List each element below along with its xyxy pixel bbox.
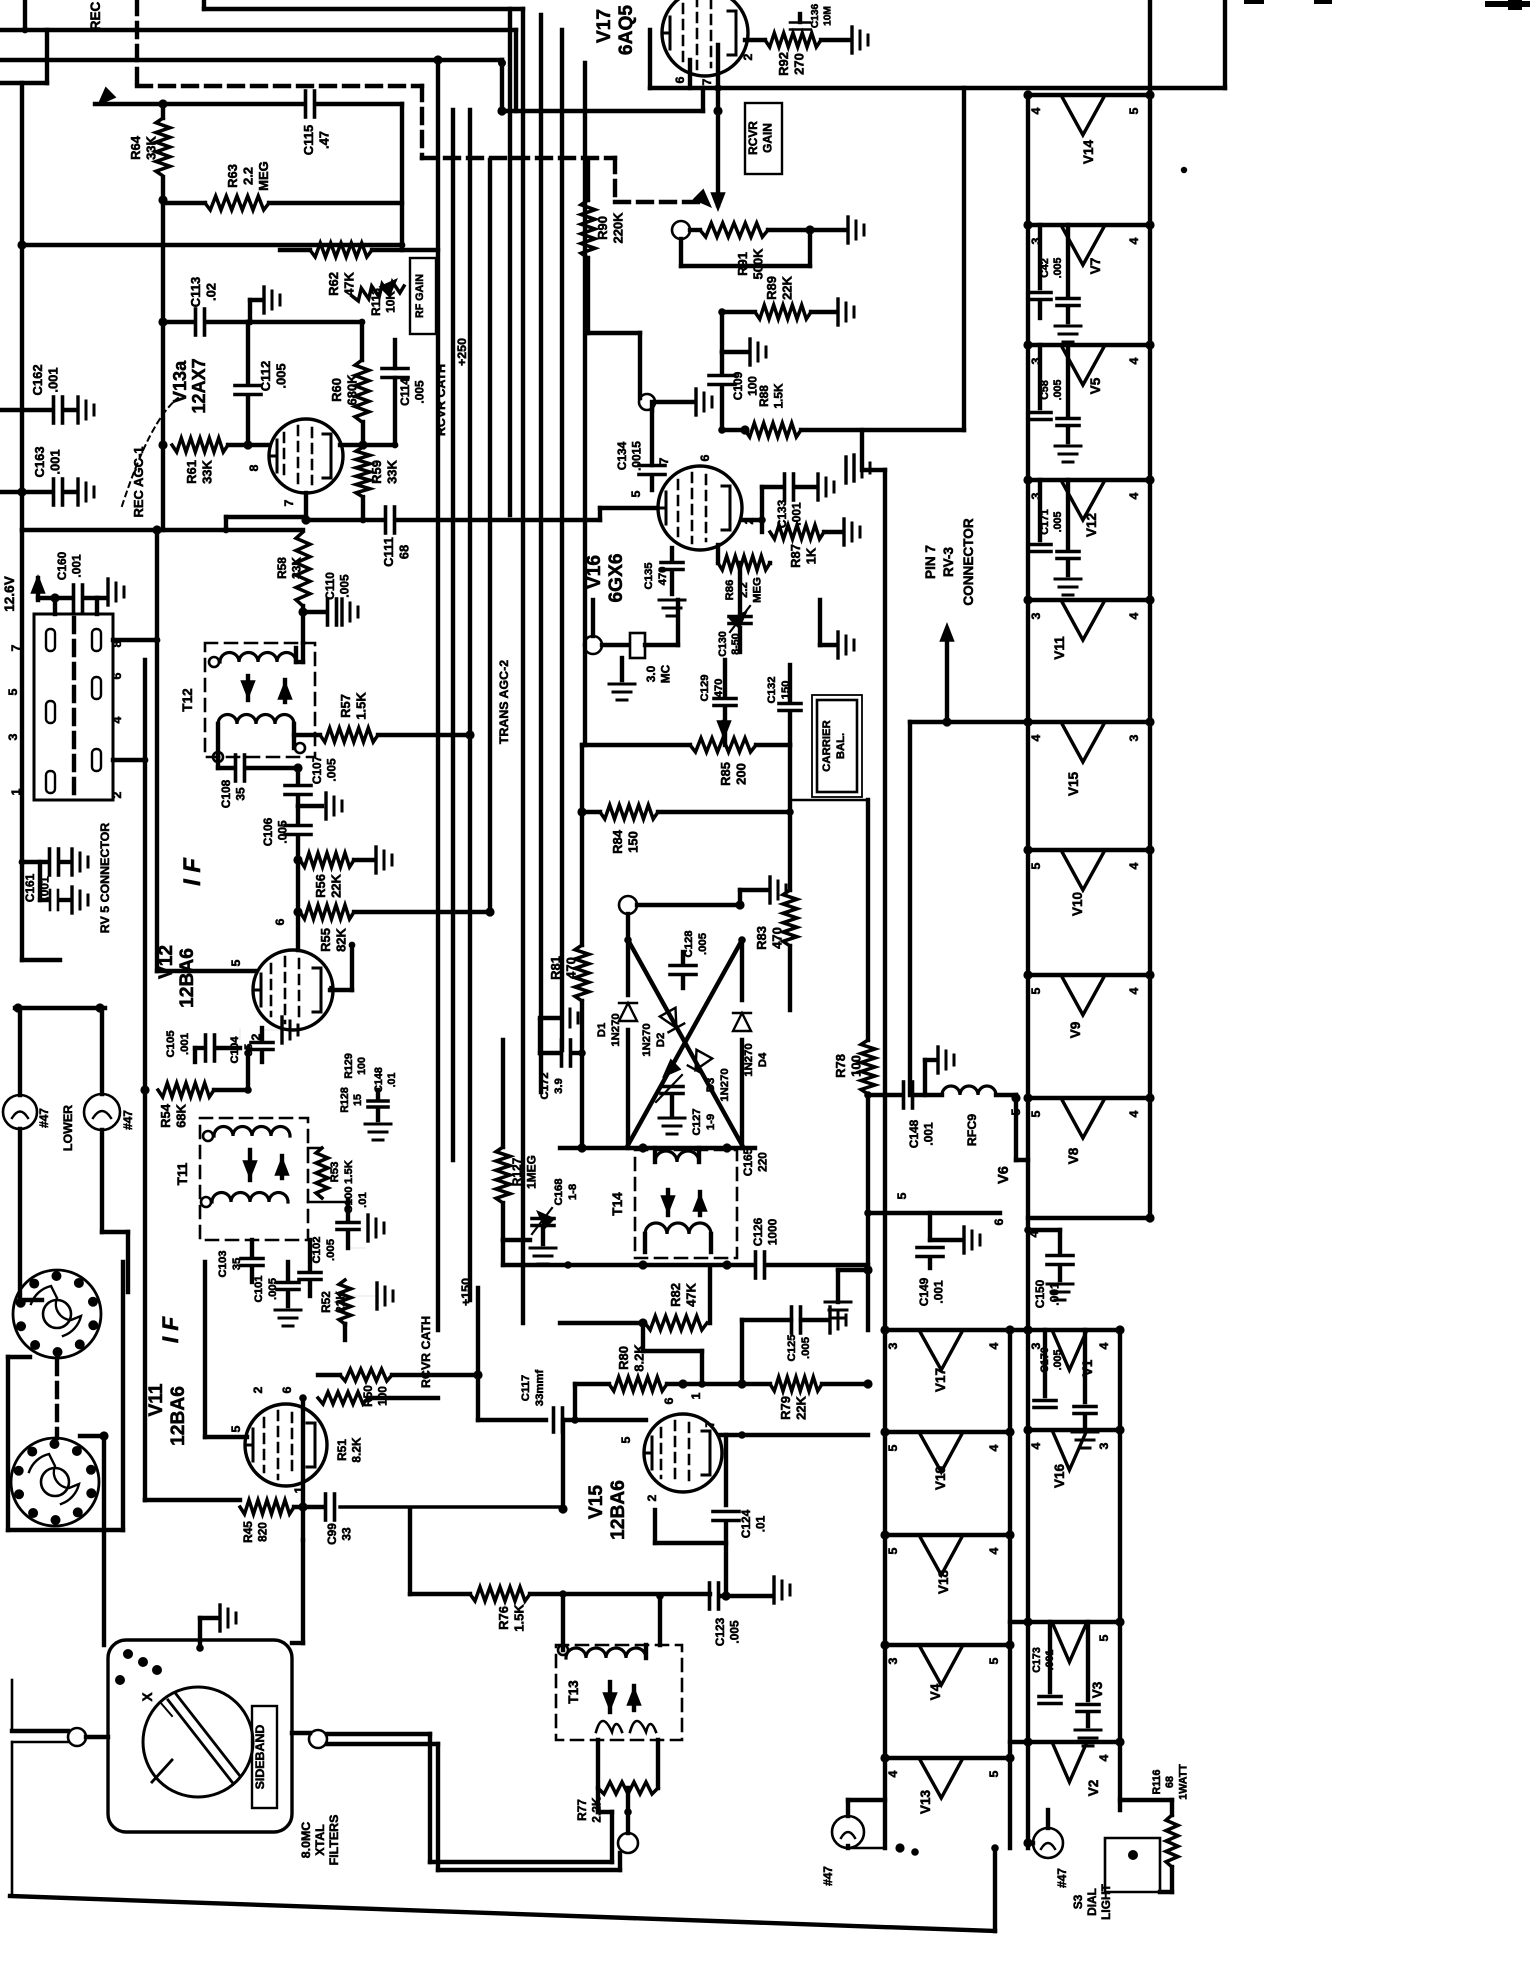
svg-text:V3: V3 bbox=[1090, 1681, 1105, 1698]
tube V18 heater bbox=[880, 1530, 1014, 1594]
node RCVR GAIN bbox=[745, 103, 782, 174]
wire bbox=[790, 799, 868, 802]
svg-text:V15: V15 bbox=[1066, 771, 1081, 796]
tube V11 heater bbox=[1023, 595, 1154, 659]
svg-text:R61: R61 bbox=[184, 460, 199, 484]
svg-text:C135: C135 bbox=[643, 562, 655, 589]
node J2 bbox=[309, 1730, 327, 1748]
pin 5 bbox=[229, 959, 243, 966]
wire bbox=[598, 1788, 632, 1816]
node PIN 7 RV-3 bbox=[923, 518, 976, 606]
svg-text:TRANS AGC-2: TRANS AGC-2 bbox=[497, 660, 511, 744]
svg-text:4: 4 bbox=[886, 1770, 900, 1777]
resistor R55 bbox=[293, 905, 490, 952]
pin 6 bbox=[662, 1397, 676, 1404]
node SIDEBAND bbox=[252, 1706, 277, 1808]
resistor R61 bbox=[172, 438, 228, 484]
node V17 label bbox=[594, 5, 637, 55]
wire bbox=[866, 1270, 870, 1330]
pin 2 bbox=[742, 517, 756, 524]
svg-text:4: 4 bbox=[1097, 1342, 1111, 1349]
svg-text:6: 6 bbox=[992, 1218, 1006, 1225]
wire bbox=[720, 312, 724, 352]
svg-text:6: 6 bbox=[280, 1386, 294, 1393]
resistor R56 bbox=[293, 847, 392, 898]
svg-text:2: 2 bbox=[110, 791, 124, 798]
wire bbox=[296, 858, 300, 950]
wire specks bbox=[1181, 0, 1530, 173]
svg-text:REC AGC-1: REC AGC-1 bbox=[131, 446, 146, 517]
svg-text:R89: R89 bbox=[764, 276, 779, 300]
svg-text:C136: C136 bbox=[810, 3, 821, 28]
svg-text:C103: C103 bbox=[217, 1250, 229, 1277]
node bbox=[639, 389, 712, 415]
svg-text:C99: C99 bbox=[325, 1523, 339, 1545]
svg-text:R78: R78 bbox=[833, 1054, 848, 1078]
wire bbox=[658, 1596, 662, 1645]
capacitor C124 bbox=[713, 1435, 767, 1601]
svg-text:470: 470 bbox=[657, 567, 669, 586]
node TRANS AGC-2 bbox=[497, 660, 511, 744]
svg-text:.001: .001 bbox=[46, 367, 61, 392]
resistor R62 bbox=[280, 243, 438, 296]
svg-text:.005: .005 bbox=[275, 820, 289, 844]
svg-text:T11: T11 bbox=[175, 1162, 190, 1185]
svg-text:R63: R63 bbox=[225, 164, 240, 188]
svg-text:1K: 1K bbox=[804, 547, 819, 564]
wire box bbox=[650, 0, 1225, 88]
node RCVR CATH bbox=[419, 1316, 433, 1388]
svg-text:150: 150 bbox=[780, 681, 792, 700]
svg-text:R79: R79 bbox=[778, 1396, 793, 1420]
svg-text:3: 3 bbox=[1097, 1442, 1111, 1449]
svg-text:C104: C104 bbox=[229, 1036, 241, 1064]
pin 3 bbox=[6, 733, 20, 740]
wire bbox=[301, 606, 305, 643]
wire bbox=[868, 1095, 1028, 1225]
node J1 bbox=[12, 1728, 108, 1746]
svg-text:#47: #47 bbox=[121, 1110, 135, 1130]
ground bbox=[820, 600, 854, 658]
node REC AGC bbox=[88, 1, 103, 30]
svg-text:5: 5 bbox=[895, 1192, 909, 1199]
svg-text:6: 6 bbox=[673, 76, 687, 83]
svg-text:SIDEBAND: SIDEBAND bbox=[253, 1725, 267, 1790]
node X bbox=[140, 1692, 172, 1716]
wire bbox=[718, 545, 770, 652]
wire bbox=[11, 1680, 14, 1896]
svg-text:500K: 500K bbox=[751, 248, 766, 280]
node XTAL FILTERS bbox=[299, 1815, 341, 1866]
resistor R78 bbox=[833, 800, 875, 1270]
capacitor C148b bbox=[365, 1067, 398, 1140]
svg-text:D4: D4 bbox=[757, 1052, 769, 1067]
svg-text:5: 5 bbox=[886, 1547, 900, 1554]
pin 5 bbox=[1009, 1108, 1023, 1115]
pin 7 bbox=[9, 644, 23, 651]
svg-text:12.6V: 12.6V bbox=[2, 576, 17, 612]
svg-text:5: 5 bbox=[1097, 1634, 1111, 1641]
svg-text:R50: R50 bbox=[361, 1385, 375, 1407]
transformer T12 bbox=[180, 643, 315, 757]
lamp I2 bbox=[84, 1008, 135, 1130]
svg-text:.01: .01 bbox=[386, 1073, 398, 1088]
capacitor C133 bbox=[758, 474, 834, 528]
svg-text:R82: R82 bbox=[668, 1283, 683, 1307]
svg-text:33K: 33K bbox=[200, 459, 215, 483]
capacitor C128 bbox=[670, 930, 709, 988]
resistor R45 bbox=[240, 1500, 324, 1543]
svg-text:MC: MC bbox=[658, 664, 672, 683]
node V11 label bbox=[146, 1383, 189, 1446]
wire bbox=[158, 200, 167, 530]
wire bbox=[1027, 1213, 1155, 1237]
node LOWER bbox=[61, 1105, 75, 1151]
ground bbox=[825, 1270, 868, 1318]
svg-text:10K: 10K bbox=[383, 291, 397, 313]
capacitor C108 bbox=[218, 755, 303, 808]
svg-text:V8: V8 bbox=[1066, 1147, 1081, 1164]
svg-text:V16: V16 bbox=[584, 555, 605, 589]
capacitor C105 bbox=[165, 1030, 240, 1062]
wire rail bbox=[1008, 1330, 1012, 1848]
svg-text:RCVR CATH: RCVR CATH bbox=[419, 1316, 433, 1388]
resistor R54 bbox=[158, 1083, 248, 1128]
pin 2 bbox=[741, 53, 755, 60]
wire bbox=[681, 230, 810, 266]
resistor R60 bbox=[248, 319, 369, 422]
svg-text:C114: C114 bbox=[398, 378, 412, 406]
tube V3 heater bbox=[1023, 1617, 1124, 1698]
pin 7 bbox=[703, 1420, 717, 1427]
svg-text:.01: .01 bbox=[357, 1192, 369, 1208]
svg-text:1.5K: 1.5K bbox=[771, 383, 785, 409]
pin 8 bbox=[110, 640, 124, 647]
tube V17 heater bbox=[880, 1325, 1014, 1392]
svg-text:V14: V14 bbox=[1081, 139, 1096, 164]
capacitor C148 bbox=[868, 1082, 942, 1148]
svg-text:820: 820 bbox=[255, 1522, 269, 1542]
svg-text:R88: R88 bbox=[757, 385, 771, 407]
capacitor C125 bbox=[742, 1307, 846, 1384]
svg-text:C134: C134 bbox=[615, 441, 629, 470]
svg-text:7: 7 bbox=[657, 457, 671, 464]
wire bbox=[848, 1843, 919, 1855]
potentiometer R91 bbox=[672, 217, 864, 280]
svg-text:C42: C42 bbox=[1039, 258, 1051, 278]
svg-text:R127: R127 bbox=[510, 1157, 524, 1186]
wire bbox=[213, 743, 305, 768]
svg-text:1N270: 1N270 bbox=[641, 1023, 653, 1056]
wire bbox=[514, 30, 518, 111]
wire bbox=[1010, 1325, 1033, 1334]
T11 secondary bbox=[201, 1193, 288, 1208]
node V12 label bbox=[156, 945, 198, 1008]
svg-text:1N270: 1N270 bbox=[719, 1068, 731, 1101]
diode D3 bbox=[628, 940, 742, 1145]
svg-text:C109: C109 bbox=[731, 371, 745, 400]
transformer T14 bbox=[610, 1150, 737, 1258]
capacitor C103 bbox=[217, 1240, 263, 1282]
svg-text:C123: C123 bbox=[713, 1617, 727, 1646]
svg-text:2.2: 2.2 bbox=[241, 167, 256, 185]
svg-text:100: 100 bbox=[849, 1055, 864, 1077]
svg-text:V11: V11 bbox=[146, 1383, 167, 1416]
wire bbox=[22, 0, 29, 33]
svg-text:82K: 82K bbox=[334, 927, 349, 951]
svg-text:1-9: 1-9 bbox=[705, 1114, 717, 1130]
svg-text:2: 2 bbox=[741, 53, 755, 60]
svg-text:R59: R59 bbox=[369, 460, 384, 484]
wire bbox=[939, 622, 954, 727]
capacitor C123 bbox=[710, 1577, 791, 1646]
wire AGC dashed run bbox=[137, 0, 712, 208]
wire bbox=[80, 1431, 109, 1440]
capacitor C109 bbox=[709, 352, 759, 430]
resistor R57 bbox=[294, 692, 470, 742]
svg-text:V9: V9 bbox=[1068, 1021, 1083, 1038]
wire bus bbox=[451, 110, 455, 1160]
svg-text:4: 4 bbox=[1029, 734, 1043, 741]
svg-text:C132: C132 bbox=[766, 676, 778, 703]
wire bbox=[157, 530, 256, 971]
tube V4 heater bbox=[880, 1640, 1014, 1700]
wire bbox=[0, 30, 47, 83]
node V6 bbox=[996, 1166, 1012, 1184]
svg-text:XTAL: XTAL bbox=[313, 1824, 327, 1856]
pin 2 bbox=[110, 791, 124, 798]
capacitor C129 bbox=[699, 660, 736, 745]
svg-text:#47: #47 bbox=[821, 1866, 835, 1886]
svg-text:V12: V12 bbox=[156, 945, 177, 979]
wire bus bbox=[508, 9, 512, 515]
svg-text:5: 5 bbox=[6, 688, 20, 695]
capacitor C132 bbox=[766, 665, 801, 745]
T14 primary bbox=[655, 1148, 699, 1162]
capacitor C135 bbox=[643, 548, 685, 616]
svg-text:.01: .01 bbox=[753, 1515, 767, 1532]
wire bbox=[571, 1384, 579, 1424]
node RV 5 CONNECTOR bbox=[98, 823, 112, 933]
svg-text:R77: R77 bbox=[575, 1799, 589, 1821]
svg-text:C112: C112 bbox=[258, 361, 273, 391]
resistor R127 bbox=[496, 1040, 538, 1203]
wire bbox=[228, 443, 269, 447]
node J3 bbox=[618, 1833, 638, 1853]
tube V8 heater bbox=[1023, 1093, 1154, 1164]
svg-text:68: 68 bbox=[1164, 1776, 1176, 1788]
switch knob bbox=[143, 1687, 253, 1797]
pin 5 bbox=[6, 688, 20, 695]
svg-text:12AX7: 12AX7 bbox=[189, 358, 209, 413]
svg-text:5: 5 bbox=[229, 959, 243, 966]
svg-text:V5: V5 bbox=[1088, 377, 1103, 394]
svg-text:R76: R76 bbox=[496, 1606, 511, 1630]
svg-text:.005: .005 bbox=[1052, 380, 1064, 401]
svg-text:R57: R57 bbox=[338, 694, 353, 718]
svg-text:R52: R52 bbox=[319, 1291, 333, 1313]
wire bbox=[1023, 1838, 1033, 1847]
resistor R76 bbox=[410, 1509, 710, 1632]
svg-text:V2: V2 bbox=[1086, 1779, 1101, 1796]
node IF label bbox=[180, 858, 206, 886]
svg-text:LOWER: LOWER bbox=[61, 1105, 75, 1151]
svg-text:C126: C126 bbox=[751, 1217, 765, 1246]
wire bbox=[22, 525, 303, 534]
wire bbox=[655, 1510, 726, 1543]
lamp DS2 bbox=[1033, 1810, 1069, 1888]
svg-text:1.5K: 1.5K bbox=[354, 692, 369, 720]
svg-text:6: 6 bbox=[273, 918, 287, 925]
svg-text:I F: I F bbox=[180, 858, 206, 886]
svg-text:CONNECTOR: CONNECTOR bbox=[961, 518, 976, 606]
T14 arrows bbox=[660, 1190, 707, 1215]
svg-text:R113: R113 bbox=[369, 288, 383, 316]
node ring top bbox=[619, 877, 786, 914]
pin 7 bbox=[282, 499, 296, 506]
capacitor C106 bbox=[261, 806, 311, 858]
svg-text:C172: C172 bbox=[539, 1072, 551, 1099]
T13 primary bbox=[558, 1645, 646, 1658]
svg-text:V13a: V13a bbox=[170, 360, 190, 403]
T14 secondary bbox=[645, 1223, 711, 1252]
svg-text:2: 2 bbox=[645, 1494, 659, 1501]
resistor R82 bbox=[638, 1268, 710, 1330]
svg-text:1.5K: 1.5K bbox=[343, 1159, 355, 1184]
pin 7 bbox=[327, 985, 341, 992]
svg-text:12BA6: 12BA6 bbox=[168, 1386, 189, 1446]
capacitor C149 bbox=[917, 1213, 945, 1306]
resistor R53 bbox=[316, 1148, 355, 1198]
wire rail bbox=[1118, 1330, 1122, 1810]
node V15 label bbox=[586, 1480, 629, 1540]
svg-text:.005: .005 bbox=[324, 758, 338, 782]
wire heavy bbox=[340, 1505, 563, 1508]
svg-text:C149: C149 bbox=[917, 1277, 931, 1306]
svg-text:5: 5 bbox=[1029, 862, 1043, 869]
tube V12 bbox=[253, 950, 333, 1030]
svg-text:22K: 22K bbox=[333, 1291, 347, 1313]
T11 primary bbox=[203, 1127, 290, 1142]
svg-text:.001: .001 bbox=[69, 554, 83, 578]
svg-text:5: 5 bbox=[1029, 1110, 1043, 1117]
resistor R52 bbox=[319, 1280, 393, 1340]
tube V13 heater bbox=[880, 1753, 1014, 1814]
wire bottom bus bbox=[10, 1844, 999, 1931]
wire bbox=[205, 1262, 247, 1437]
svg-text:.005: .005 bbox=[412, 380, 426, 404]
wire bus bbox=[436, 60, 440, 1330]
resistor R80 bbox=[575, 1344, 706, 1391]
wire rail bbox=[1026, 93, 1030, 1330]
wire ring bottom bbox=[560, 1143, 755, 1152]
wire bbox=[360, 497, 367, 523]
pin 2 bbox=[645, 1494, 659, 1501]
resistor R64 bbox=[128, 118, 170, 176]
svg-text:33K: 33K bbox=[289, 557, 303, 579]
wire bbox=[140, 660, 149, 1500]
svg-text:RV-3: RV-3 bbox=[941, 547, 956, 577]
svg-text:3: 3 bbox=[1127, 734, 1141, 741]
T13 secondary bbox=[596, 1721, 656, 1732]
svg-text:C105: C105 bbox=[165, 1030, 177, 1057]
resistor R83 bbox=[754, 890, 797, 1010]
svg-text:68: 68 bbox=[397, 545, 412, 559]
resistor R50 bbox=[318, 1369, 478, 1407]
svg-text:1WATT: 1WATT bbox=[1178, 1764, 1190, 1800]
svg-text:R83: R83 bbox=[754, 926, 769, 950]
switch contacts bbox=[115, 1649, 162, 1685]
resistor R116 bbox=[1120, 1764, 1190, 1892]
wire bbox=[292, 1733, 612, 1862]
wire bbox=[327, 1744, 620, 1870]
wire rail bbox=[883, 1330, 887, 1848]
tube V5 heater bbox=[1023, 340, 1154, 394]
svg-text:RCVR: RCVR bbox=[746, 121, 760, 155]
wire plate V15 bbox=[720, 1431, 868, 1439]
ground bbox=[196, 1605, 236, 1652]
capacitor C136 bbox=[790, 3, 834, 29]
svg-text:4: 4 bbox=[1097, 1754, 1111, 1761]
svg-text:1000: 1000 bbox=[765, 1218, 779, 1245]
svg-text:V19: V19 bbox=[933, 1465, 948, 1490]
svg-text:22K: 22K bbox=[780, 275, 795, 299]
svg-text:8.0MC: 8.0MC bbox=[299, 1822, 313, 1859]
capacitor C112 bbox=[235, 322, 289, 450]
lamp DS1 bbox=[821, 1800, 885, 1886]
resistor R88 bbox=[740, 88, 964, 481]
svg-text:8: 8 bbox=[247, 464, 261, 471]
svg-text:V13: V13 bbox=[918, 1789, 933, 1814]
capacitor C170 bbox=[1034, 1330, 1098, 1448]
wire bbox=[102, 1436, 106, 1645]
svg-text:R60: R60 bbox=[329, 378, 344, 402]
pin 6 bbox=[280, 1386, 294, 1393]
resistor R79 bbox=[702, 1377, 873, 1420]
svg-text:.005: .005 bbox=[1052, 258, 1064, 279]
wire frame bbox=[8, 1262, 123, 1530]
svg-text:5: 5 bbox=[987, 1657, 1001, 1664]
svg-text:4: 4 bbox=[1127, 357, 1141, 364]
capacitor C134 bbox=[615, 410, 665, 490]
svg-text:5: 5 bbox=[229, 1425, 243, 1432]
svg-text:R129: R129 bbox=[343, 1053, 355, 1079]
svg-text:V10: V10 bbox=[1070, 892, 1085, 916]
node V16 label bbox=[584, 553, 627, 602]
wire bbox=[95, 598, 99, 614]
wire bus bbox=[560, 30, 564, 1050]
svg-text:1: 1 bbox=[689, 1392, 703, 1399]
svg-text:270: 270 bbox=[792, 53, 807, 75]
wire bbox=[788, 812, 792, 890]
svg-text:33K: 33K bbox=[144, 135, 159, 159]
wire bbox=[53, 598, 57, 614]
T13 arrows bbox=[602, 1682, 641, 1712]
resistor R87 bbox=[762, 519, 860, 568]
wire bbox=[226, 517, 306, 530]
svg-text:PIN 7: PIN 7 bbox=[923, 545, 938, 579]
svg-text:R64: R64 bbox=[128, 135, 143, 160]
wire rail bbox=[1148, 0, 1152, 1218]
potentiometer R85 bbox=[690, 720, 790, 786]
svg-text:.005: .005 bbox=[274, 363, 289, 388]
svg-text:200: 200 bbox=[734, 763, 749, 785]
capacitor C104 bbox=[229, 1017, 298, 1064]
svg-text:V16: V16 bbox=[1052, 1463, 1067, 1488]
svg-text:C125: C125 bbox=[786, 1334, 798, 1361]
svg-text:MEG: MEG bbox=[752, 577, 764, 603]
svg-text:33: 33 bbox=[339, 1527, 353, 1541]
